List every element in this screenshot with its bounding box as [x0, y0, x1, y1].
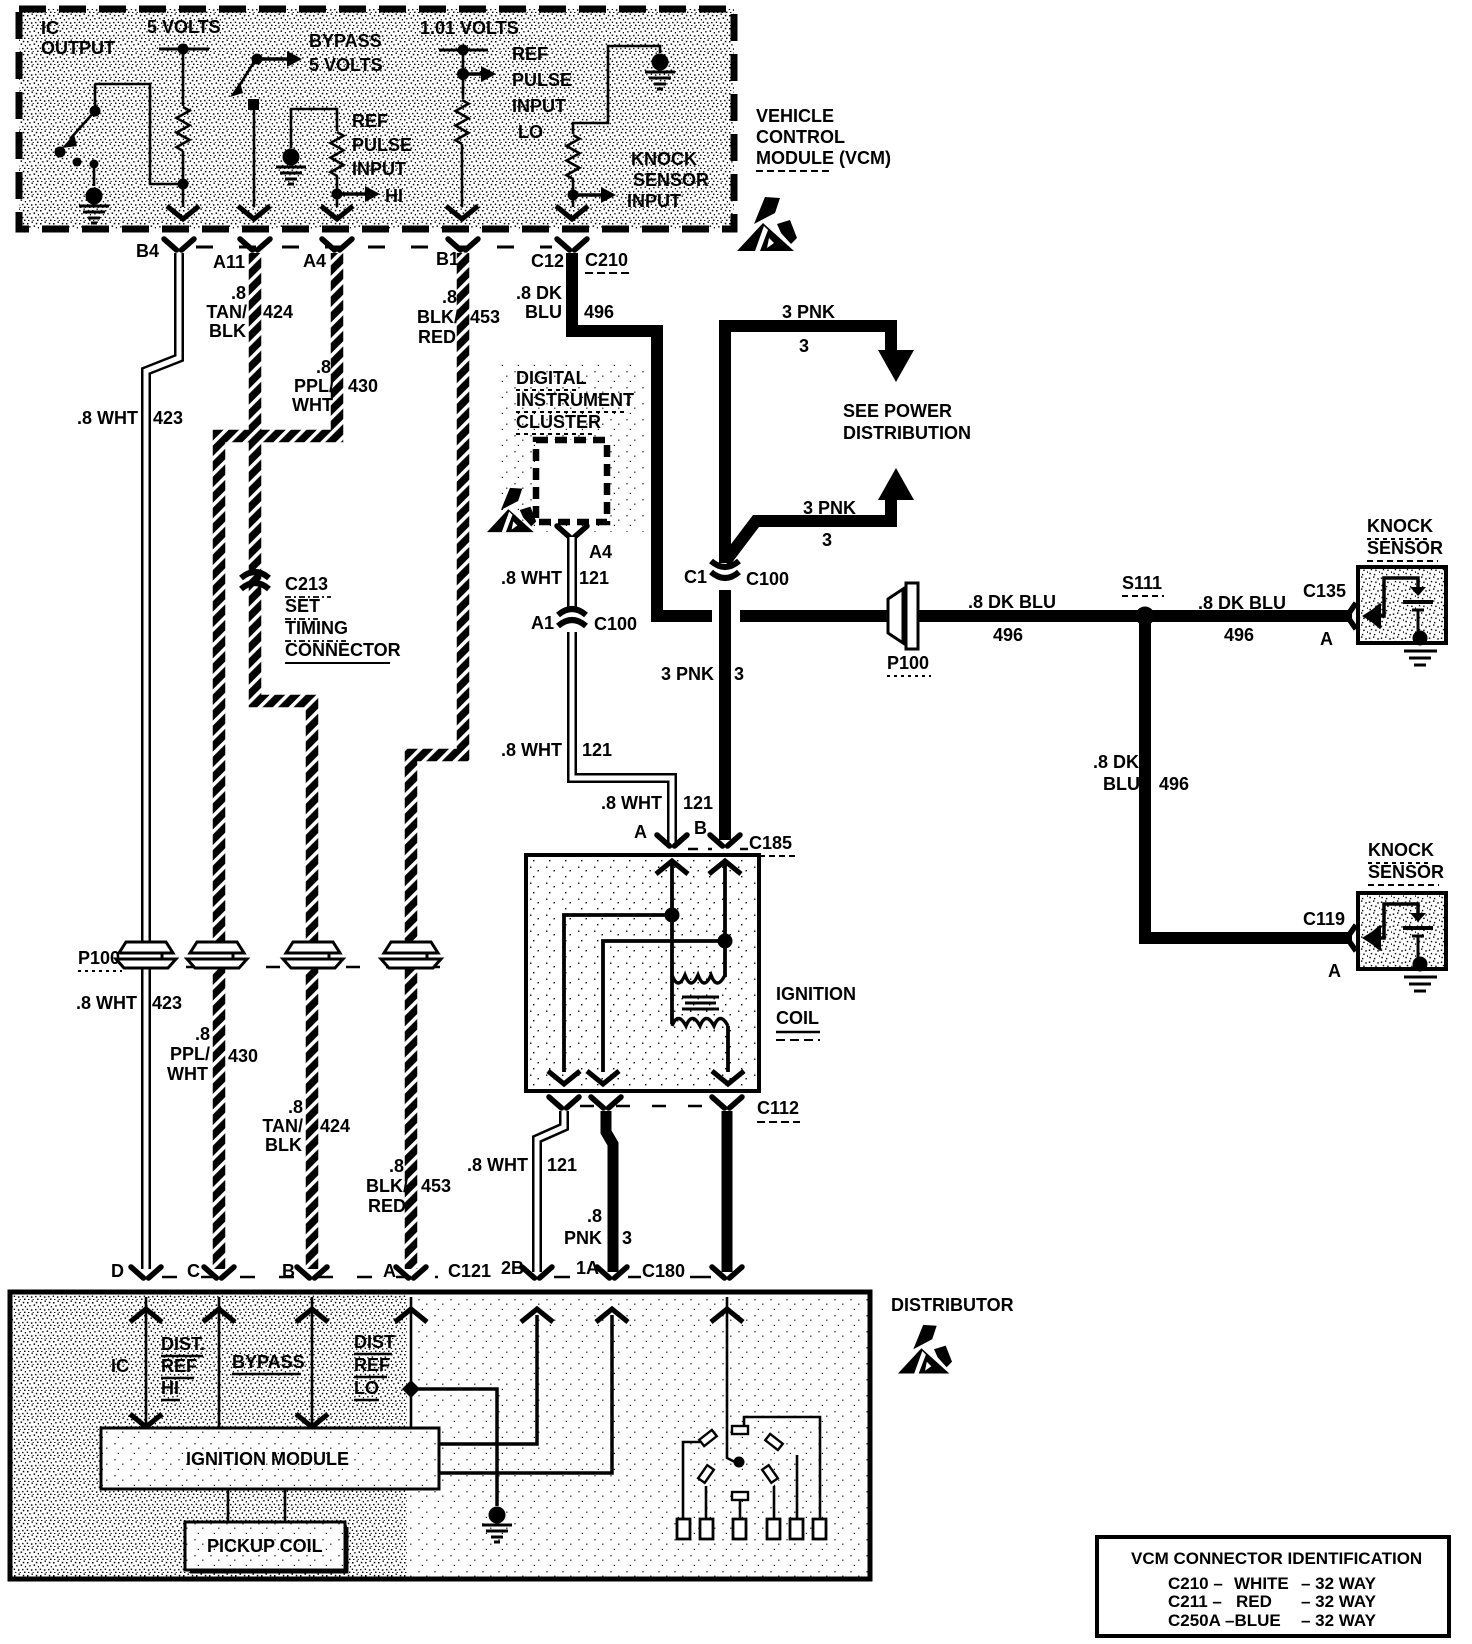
svg-text:RED: RED	[368, 1196, 406, 1216]
connector line C185 (dashed)	[688, 848, 748, 851]
svg-text:IGNITION MODULE: IGNITION MODULE	[186, 1449, 349, 1469]
pin B1	[436, 239, 478, 269]
svg-text:C12: C12	[531, 251, 564, 271]
arrow down to pin C12	[556, 206, 588, 219]
wire ground to resistor (ref pulse input hi)	[291, 109, 337, 148]
label C112	[757, 1098, 800, 1122]
svg-text:PPL/: PPL/	[294, 376, 334, 396]
svg-text:VCM CONNECTOR IDENTIFICATION: VCM CONNECTOR IDENTIFICATION	[1131, 1549, 1422, 1568]
svg-text:496: 496	[993, 625, 1023, 645]
junction dot DIST REF LO	[402, 1380, 420, 1398]
distributor cap terminals	[683, 1417, 820, 1519]
svg-text:121: 121	[582, 740, 612, 760]
label DIGITAL INSTRUMENT CLUSTER	[516, 368, 634, 434]
svg-text:423: 423	[152, 993, 182, 1013]
wire 423 .8 WHT (outlined) B4 to P100 to distributor D	[146, 253, 179, 1269]
label REF PULSE INPUT	[352, 111, 412, 179]
svg-text:PNK: PNK	[564, 1228, 602, 1248]
svg-text:P100: P100	[78, 948, 120, 968]
svg-text:.8: .8	[231, 283, 246, 303]
svg-text:C135: C135	[1303, 581, 1346, 601]
label .8 DK BLU 496 (top)	[516, 283, 614, 322]
connector P100 row (pass-through grommets)	[78, 942, 465, 971]
svg-text:.8: .8	[288, 1097, 303, 1117]
pin 1A	[576, 1258, 627, 1278]
pin A	[383, 1261, 426, 1281]
label BYPASS 5 VOLTS	[309, 31, 383, 75]
svg-text:C213: C213	[285, 574, 328, 594]
wire BYPASS inside distributor	[232, 1297, 328, 1427]
svg-text:LO: LO	[518, 122, 543, 142]
svg-text:KNOCK: KNOCK	[1367, 516, 1433, 536]
svg-text:A4: A4	[589, 542, 612, 562]
transformer secondary winding	[672, 1019, 728, 1027]
svg-text:IC: IC	[111, 1356, 129, 1376]
arrow down to pin B1	[446, 206, 478, 219]
svg-text:.8 WHT: .8 WHT	[76, 993, 137, 1013]
pin 2B	[501, 1258, 552, 1278]
transformer core	[682, 997, 719, 1009]
svg-text:DISTRIBUTION: DISTRIBUTION	[843, 423, 971, 443]
label IC OUTPUT	[41, 18, 115, 58]
svg-text:PULSE: PULSE	[512, 70, 572, 90]
distributor box	[10, 1292, 870, 1579]
wire coil secondary (thick) C112 to C180	[722, 1111, 733, 1272]
svg-text:BYPASS: BYPASS	[309, 31, 382, 51]
svg-text:2B: 2B	[501, 1258, 524, 1278]
pin C	[187, 1261, 234, 1281]
ESD symbol distributor	[898, 1325, 952, 1374]
svg-text:3: 3	[622, 1228, 632, 1248]
wire module output to 1A	[439, 1315, 612, 1473]
svg-text:A: A	[1328, 961, 1341, 981]
knock sensor input: ground top	[645, 54, 675, 90]
resistor R (knock input)	[567, 135, 580, 179]
svg-text:DIST: DIST	[354, 1332, 395, 1352]
svg-text:.8: .8	[587, 1206, 602, 1226]
connector C1 / C100	[684, 561, 789, 589]
wires module to pickup coil	[228, 1489, 285, 1522]
node 5 volts supply bar	[159, 48, 209, 51]
wire 121 .8 WHT (outlined) DIC to C100 to C185 A	[572, 537, 672, 843]
wire module output to 2B	[439, 1315, 537, 1444]
svg-text:HI: HI	[385, 186, 403, 206]
svg-text:3: 3	[799, 336, 809, 356]
wire C180 to rotor	[711, 1297, 745, 1468]
ground IC output	[79, 188, 109, 224]
connector line C210 (dashed)	[196, 246, 552, 249]
svg-text:453: 453	[421, 1176, 451, 1196]
label .8 DK BLU 496 (left of S111)	[968, 592, 1056, 645]
svg-text:.8 DK: .8 DK	[516, 283, 562, 303]
wire DIST REF HI inside distributor	[161, 1297, 235, 1430]
label SEE POWER DISTRIBUTION	[843, 401, 971, 443]
svg-text:CONNECTOR: CONNECTOR	[285, 640, 401, 660]
pin C185 B	[694, 818, 740, 846]
svg-text:INSTRUMENT: INSTRUMENT	[516, 390, 634, 410]
label C185	[749, 833, 795, 856]
label KNOCK SENSOR INPUT	[627, 149, 709, 211]
svg-text:BLU: BLU	[1103, 774, 1140, 794]
svg-text:INPUT: INPUT	[627, 191, 681, 211]
connector A1 / C100	[531, 609, 637, 634]
svg-text:KNOCK: KNOCK	[1368, 840, 1434, 860]
svg-text:.8 WHT: .8 WHT	[501, 740, 562, 760]
svg-text:INPUT: INPUT	[512, 96, 566, 116]
svg-text:121: 121	[683, 793, 713, 813]
wire 496 .8 DK BLU (thick) C12 to C135	[572, 253, 712, 616]
svg-text:C: C	[187, 1261, 200, 1281]
pin A11	[213, 239, 270, 272]
switch arm bypass	[230, 51, 302, 97]
wire 5V down	[182, 49, 185, 106]
svg-text:RED: RED	[1236, 1592, 1272, 1611]
svg-text:.8 DK: .8 DK	[1093, 752, 1139, 772]
wire 3 PNK branch 2 (to power distribution, arrow up)	[725, 468, 914, 562]
svg-text:REF: REF	[352, 111, 388, 131]
pin C112-2	[591, 1097, 621, 1108]
svg-text:B4: B4	[136, 241, 159, 261]
svg-text:3 PNK: 3 PNK	[661, 664, 714, 684]
svg-text:INPUT: INPUT	[352, 159, 406, 179]
wire resistor to node	[572, 179, 575, 207]
wire down	[461, 50, 463, 99]
label .8 WHT 121 (mid)	[501, 740, 612, 760]
arrow HI right	[337, 186, 380, 202]
svg-text:CONTROL: CONTROL	[756, 127, 845, 147]
pin C185 A	[634, 822, 687, 846]
svg-text:C100: C100	[746, 569, 789, 589]
svg-text:DISTRIBUTOR: DISTRIBUTOR	[891, 1295, 1014, 1315]
knock sensor 1 label	[1367, 516, 1443, 561]
svg-text:RED: RED	[418, 327, 456, 347]
svg-text:SENSOR: SENSOR	[633, 170, 709, 190]
svg-text:430: 430	[228, 1046, 258, 1066]
svg-text:WHT: WHT	[292, 395, 333, 415]
label .8 PPL/WHT 430 (upper)	[292, 357, 378, 415]
switch arm IC OUTPUT	[55, 106, 101, 187]
svg-text:C211 –: C211 –	[1168, 1592, 1222, 1611]
pin C135 A	[1303, 581, 1356, 649]
svg-text:MODULE (VCM): MODULE (VCM)	[756, 148, 891, 168]
wire 3 PNK vertical (C1 to C185 B)	[719, 320, 731, 840]
wire 3 .8 PNK (thick) C112 to 1A	[606, 1111, 613, 1272]
label .8 TAN/BLK 424 (upper)	[206, 283, 293, 341]
svg-text:.8: .8	[389, 1156, 404, 1176]
DIC box (dashed)	[536, 440, 607, 522]
svg-text:WHITE: WHITE	[1234, 1574, 1289, 1593]
svg-text:.8: .8	[195, 1024, 210, 1044]
label .8 WHT 121 (at C185)	[601, 793, 713, 813]
label 3 PNK 3 (vertical run)	[661, 664, 744, 684]
label IGNITION COIL	[776, 984, 856, 1040]
connector line C121/C180 (dashed)	[162, 1276, 438, 1279]
pin A4 of DIC	[557, 526, 612, 562]
svg-text:A1: A1	[531, 613, 554, 633]
wire 3 PNK branch 1 (to power distribution, arrow down)	[725, 302, 914, 382]
svg-text:BLK: BLK	[265, 1135, 302, 1155]
svg-text:HI: HI	[161, 1378, 179, 1398]
wire resistor to node HI	[336, 176, 339, 207]
svg-text:S111: S111	[1122, 573, 1162, 593]
pin C180	[712, 1267, 742, 1278]
svg-text:C119: C119	[1303, 909, 1345, 929]
pin C112-3	[712, 1097, 742, 1108]
stipple patch DIC	[500, 362, 645, 532]
IGNITION MODULE box	[101, 1428, 439, 1489]
svg-text:BLK/: BLK/	[366, 1176, 408, 1196]
label VEHICLE CONTROL MODULE (VCM)	[756, 106, 891, 171]
svg-text:430: 430	[348, 376, 378, 396]
svg-text:C112: C112	[757, 1098, 799, 1118]
svg-text:C180: C180	[642, 1261, 685, 1281]
svg-text:DIGITAL: DIGITAL	[516, 368, 587, 388]
knock sensor 2 label	[1368, 840, 1444, 885]
wire bypass down to pin A11	[253, 110, 256, 207]
svg-text:WHT: WHT	[167, 1064, 208, 1084]
svg-text:5 VOLTS: 5 VOLTS	[147, 17, 221, 37]
junction dot knock	[568, 190, 579, 201]
wire 121 .8 WHT (outlined) C112 to 2B	[537, 1111, 564, 1272]
pin C112-1	[549, 1097, 579, 1108]
resistor R (1.01V)	[456, 100, 469, 144]
svg-text:– 32 WAY: – 32 WAY	[1301, 1574, 1377, 1593]
svg-text:C250A –BLUE: C250A –BLUE	[1168, 1611, 1281, 1630]
svg-text:COIL: COIL	[776, 1008, 819, 1028]
wire LO branch to ground	[411, 1389, 497, 1506]
svg-text:496: 496	[1159, 774, 1189, 794]
svg-text:423: 423	[153, 408, 183, 428]
pin B	[282, 1261, 327, 1281]
svg-text:.8 WHT: .8 WHT	[601, 793, 662, 813]
wire 424 .8 TAN/BLK (hatched) A11 to C213 to P100 to distributor B	[255, 253, 312, 1269]
label .8 DK BLU 496 (right of S111)	[1198, 593, 1286, 645]
svg-text:A: A	[1320, 629, 1333, 649]
svg-text:C1: C1	[684, 567, 707, 587]
svg-text:424: 424	[320, 1116, 350, 1136]
label .8 BLK/RED 453 (upper)	[417, 287, 500, 347]
svg-text:.8 DK BLU: .8 DK BLU	[1198, 593, 1286, 613]
arrow down to pin A11	[238, 206, 270, 219]
svg-text:P100: P100	[887, 653, 929, 673]
svg-text:121: 121	[547, 1155, 577, 1175]
svg-text:.8 WHT: .8 WHT	[77, 408, 138, 428]
svg-text:– 32 WAY: – 32 WAY	[1301, 1592, 1377, 1611]
svg-text:C185: C185	[749, 833, 792, 853]
arrow ref pulse lo right	[463, 66, 496, 82]
svg-text:SEE POWER: SEE POWER	[843, 401, 952, 421]
wire knock input ground run	[573, 46, 660, 134]
ESD symbol DIC	[487, 488, 536, 532]
svg-text:LO: LO	[354, 1378, 379, 1398]
wire DIST REF LO inside distributor	[354, 1297, 427, 1430]
pin B4	[136, 239, 194, 261]
wire resistor to node	[182, 151, 185, 207]
wire to pin B1	[461, 144, 464, 207]
svg-text:DIST.: DIST.	[161, 1334, 205, 1354]
wire 453 .8 BLK/RED (hatched) B1 to P100 to distributor A	[411, 253, 463, 1269]
svg-text:.8 DK BLU: .8 DK BLU	[968, 592, 1056, 612]
svg-text:IC: IC	[41, 18, 59, 38]
svg-text:TAN/: TAN/	[262, 1116, 303, 1136]
svg-text:REF: REF	[161, 1356, 197, 1376]
label .8 WHT 423 (lower)	[76, 993, 182, 1013]
connector row C112	[580, 1105, 712, 1108]
label .8 WHT 423 (upper)	[77, 408, 183, 428]
svg-text:OUTPUT: OUTPUT	[41, 38, 115, 58]
label C210	[585, 250, 630, 273]
svg-text:B: B	[694, 818, 707, 838]
svg-text:SET: SET	[285, 596, 320, 616]
pin C12	[531, 239, 587, 271]
svg-text:KNOCK: KNOCK	[631, 149, 697, 169]
ignition coil box	[526, 855, 759, 1091]
knock sensor 2 box	[1358, 893, 1446, 991]
splice S111	[1122, 573, 1164, 626]
svg-text:A: A	[634, 822, 647, 842]
label REF PULSE INPUT LO	[512, 44, 572, 142]
wire IC output switch feed	[95, 84, 183, 184]
svg-text:.8 WHT: .8 WHT	[501, 568, 562, 588]
svg-text:C121: C121	[448, 1261, 491, 1281]
svg-text:B: B	[282, 1261, 295, 1281]
svg-text:SENSOR: SENSOR	[1367, 538, 1443, 558]
distributor cap towers (squares)	[677, 1519, 826, 1539]
label .8 BLK/RED 453 (lower)	[366, 1156, 451, 1216]
svg-text:A: A	[383, 1261, 396, 1281]
label .8 PNK 3	[564, 1206, 632, 1248]
svg-text:C210: C210	[585, 250, 628, 270]
svg-text:D: D	[111, 1261, 124, 1281]
wire 496 S111 down to C119	[1145, 616, 1352, 938]
svg-text:– 32 WAY: – 32 WAY	[1301, 1611, 1377, 1630]
ground ref pulse hi	[276, 149, 306, 185]
svg-text:496: 496	[1224, 625, 1254, 645]
wire 430 .8 PPL/WHT (hatched) A4 to P100 to distributor C	[219, 253, 337, 1269]
svg-text:PICKUP COIL: PICKUP COIL	[207, 1536, 323, 1556]
junction dot ref pulse lo	[457, 68, 469, 80]
svg-text:.8 WHT: .8 WHT	[467, 1155, 528, 1175]
svg-text:1A: 1A	[576, 1258, 599, 1278]
coil internal wire B side	[587, 861, 741, 1084]
label .8 WHT 121 (above C100)	[501, 568, 609, 588]
svg-text:BLK/: BLK/	[417, 307, 459, 327]
junction dot 5V	[178, 44, 189, 55]
arrow knock right	[573, 187, 616, 203]
coil internal wire A side	[548, 861, 688, 1084]
connector P100 (on 496 horizontal)	[887, 583, 931, 676]
resistor R (ref pulse input hi)	[331, 132, 344, 176]
ground distributor	[482, 1507, 512, 1543]
arrow down to pin A4	[321, 206, 353, 219]
svg-text:3 PNK: 3 PNK	[803, 498, 856, 518]
pin C119 A	[1303, 909, 1356, 981]
svg-text:1.01 VOLTS: 1.01 VOLTS	[420, 18, 519, 38]
svg-text:TAN/: TAN/	[206, 302, 247, 322]
arrow down to pin B4	[167, 206, 199, 219]
svg-text:C100: C100	[594, 614, 637, 634]
svg-text:BYPASS: BYPASS	[232, 1352, 305, 1372]
pin D	[111, 1261, 161, 1281]
label .8 PPL/WHT 430 (lower)	[167, 1024, 258, 1084]
svg-text:496: 496	[584, 302, 614, 322]
svg-text:REF: REF	[512, 44, 548, 64]
contact square bypass	[248, 99, 259, 110]
svg-text:CLUSTER: CLUSTER	[516, 412, 601, 432]
resistor R (5V pull-up)	[177, 107, 190, 151]
svg-text:121: 121	[579, 568, 609, 588]
svg-text:C210 –: C210 –	[1168, 1574, 1223, 1593]
svg-text:VEHICLE: VEHICLE	[756, 106, 834, 126]
svg-text:REF: REF	[354, 1355, 390, 1375]
svg-text:A11: A11	[213, 252, 245, 272]
svg-text:BLK: BLK	[209, 321, 246, 341]
wire IC inside distributor	[111, 1297, 162, 1427]
junction dot IC node	[178, 179, 189, 190]
svg-text:IGNITION: IGNITION	[776, 984, 856, 1004]
label .8 DK BLU 496 (S111 drop)	[1093, 752, 1189, 794]
PICKUP COIL box	[185, 1522, 347, 1572]
svg-text:3 PNK: 3 PNK	[782, 302, 835, 322]
svg-text:.8: .8	[316, 357, 331, 377]
transformer primary winding	[672, 975, 725, 983]
svg-text:BLU: BLU	[525, 302, 562, 322]
ESD symbol VCM	[737, 197, 797, 251]
svg-text:PPL/: PPL/	[170, 1044, 210, 1064]
connector C213 (set timing)	[241, 572, 401, 663]
junction dot 1.01V	[458, 45, 469, 56]
svg-text:TIMING: TIMING	[285, 618, 348, 638]
svg-text:.8: .8	[442, 287, 457, 307]
svg-text:SENSOR: SENSOR	[1368, 862, 1444, 882]
pin A4	[303, 239, 352, 271]
svg-text:PULSE: PULSE	[352, 135, 412, 155]
svg-text:B1: B1	[436, 249, 459, 269]
label .8 WHT 121 (bottom)	[467, 1155, 577, 1175]
knock sensor 1 box	[1358, 567, 1446, 665]
label .8 TAN/BLK 424 (lower)	[262, 1097, 350, 1155]
svg-text:A4: A4	[303, 251, 326, 271]
junction dot HI	[332, 189, 343, 200]
node 1.01 volts bar	[439, 49, 488, 52]
secondary link and lead	[672, 976, 728, 1072]
svg-text:3: 3	[734, 664, 744, 684]
svg-text:453: 453	[470, 307, 500, 327]
svg-text:5 VOLTS: 5 VOLTS	[309, 55, 383, 75]
svg-text:424: 424	[263, 302, 293, 322]
VCM module box (dashed, stippled)	[19, 9, 734, 229]
svg-text:3: 3	[822, 530, 832, 550]
